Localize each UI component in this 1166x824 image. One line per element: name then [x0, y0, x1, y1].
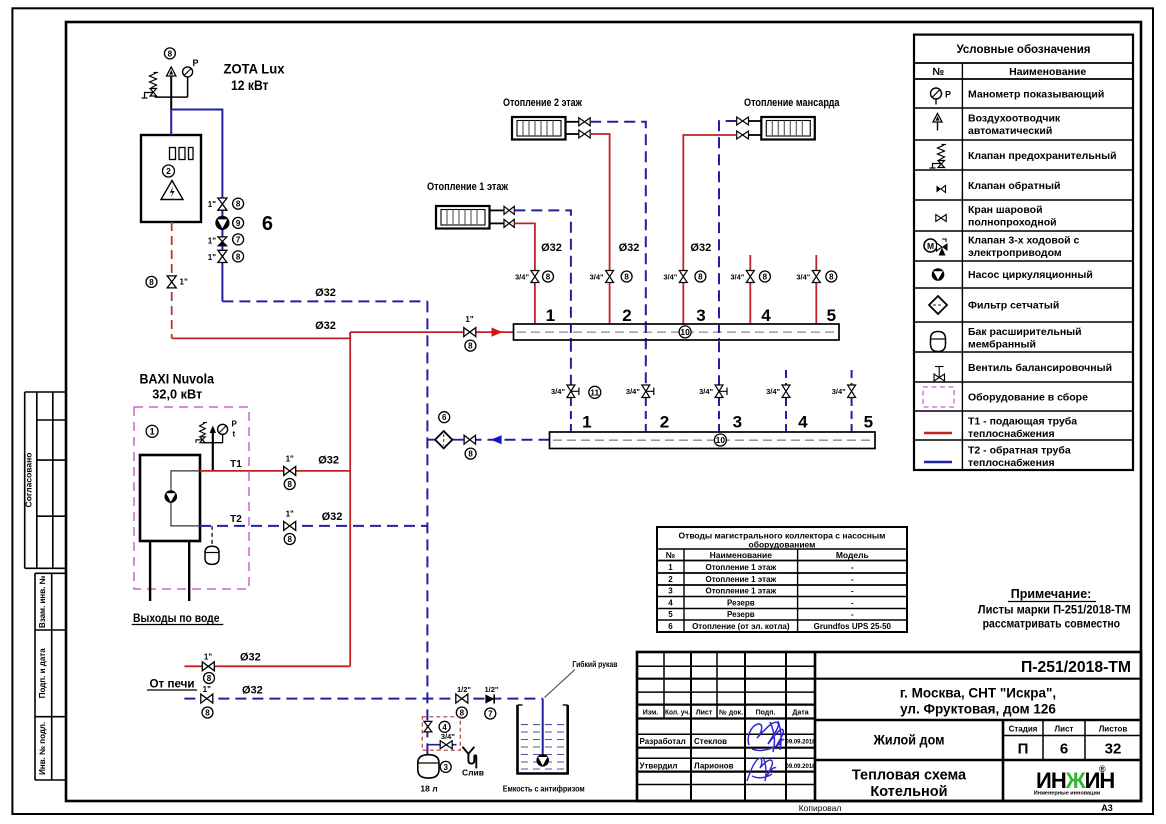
ball valve 3/4" (drain): [440, 741, 452, 749]
svg-text:6: 6: [1060, 741, 1068, 758]
svg-text:Ø32: Ø32: [315, 320, 336, 332]
svg-text:2: 2: [166, 166, 171, 176]
svg-text:4: 4: [668, 598, 673, 607]
svg-text:1: 1: [150, 427, 155, 437]
label BAXI Nuvola 32,0 кВт: [140, 371, 215, 402]
svg-text:10: 10: [716, 435, 726, 445]
ball valve (rad3 supply): [737, 131, 749, 139]
logo ИНЖИН: [1034, 764, 1115, 797]
svg-text:8: 8: [829, 273, 834, 282]
svg-text:электроприводом: электроприводом: [968, 247, 1062, 259]
wire: ZOTA return dashed blue to riser: [222, 300, 427, 302]
wire: boiler top to safety tee (black): [170, 76, 172, 110]
svg-text:9: 9: [236, 219, 241, 228]
boiler vents: [170, 148, 194, 160]
svg-text:3/4": 3/4": [699, 387, 713, 396]
svg-text:Изм.: Изм.: [643, 710, 659, 717]
svg-text:Отопление мансарда: Отопление мансарда: [744, 97, 840, 109]
legend sym: T2 line: [924, 461, 952, 463]
ball valve 1" (pump column top): [218, 198, 227, 210]
svg-text:4: 4: [761, 306, 771, 325]
check valve 1": [218, 237, 227, 246]
svg-text:Ø32: Ø32: [315, 287, 336, 299]
ball valve 1" on T1: [284, 466, 296, 475]
svg-text:Фильтр сетчатый: Фильтр сетчатый: [968, 300, 1059, 312]
signature 1 (blue): [748, 721, 784, 752]
ball valve 1/2" (fill line): [456, 694, 468, 703]
pos. 8 (circled): [146, 276, 157, 287]
svg-text:М: М: [927, 241, 934, 251]
values П 6 32: [1018, 741, 1122, 758]
balancing valve 3/4" (return br1): [567, 385, 579, 398]
svg-text:1": 1": [286, 510, 294, 519]
pos. 9 (circled): [233, 217, 244, 228]
check valve 1/2" (fill line): [485, 694, 494, 703]
svg-text:8: 8: [460, 709, 465, 718]
wire: supply branch 5 stub: [815, 255, 817, 271]
svg-text:Ø32: Ø32: [240, 652, 261, 664]
wire: rad1 supply red: [514, 223, 535, 270]
svg-text:3: 3: [443, 763, 448, 772]
drain assembly dashed box (dark red): [422, 717, 460, 750]
svg-text:Наименование: Наименование: [1009, 66, 1086, 78]
safety relief valve (BAXI): [196, 423, 207, 443]
svg-text:Взам. инв. №: Взам. инв. №: [38, 575, 47, 628]
drain funnel (Слив): [462, 747, 476, 769]
svg-text:8: 8: [205, 709, 210, 718]
svg-text:Насос циркуляционный: Насос циркуляционный: [968, 269, 1093, 281]
svg-text:1": 1": [208, 237, 216, 246]
ball valve 3/4" (return br4): [782, 385, 790, 398]
BAXI safety tee: [202, 442, 223, 444]
svg-text:1/2": 1/2": [485, 685, 499, 694]
svg-text:Т1 - подающая труба: Т1 - подающая труба: [968, 416, 1077, 428]
pressure gauge P t (BAXI): [218, 420, 238, 443]
wire: rad3 return dashed blue: [719, 121, 737, 385]
svg-text:Емкость с антифризом: Емкость с антифризом: [503, 784, 585, 794]
labels Стадия Лист Листов: [1009, 725, 1128, 734]
safety relief valve (ZOTA): [142, 73, 159, 99]
svg-text:8: 8: [698, 273, 703, 282]
pressure gauge P (ZOTA): [183, 58, 199, 97]
svg-text:От печи: От печи: [150, 677, 195, 691]
svg-text:3/4": 3/4": [515, 273, 529, 282]
svg-text:г. Москва, СНТ "Искра",: г. Москва, СНТ "Искра",: [900, 686, 1056, 701]
wire: T1 red from boiler: [200, 470, 350, 472]
legend sym: ball valve: [936, 215, 946, 222]
svg-text:T1: T1: [230, 459, 242, 470]
svg-text:7: 7: [488, 710, 493, 719]
svg-text:Котельной: Котельной: [870, 784, 947, 800]
pos. 3 (circled): [440, 761, 451, 772]
ball valve (rad2 supply): [579, 130, 590, 138]
pos. 1 (circled): [146, 425, 158, 437]
svg-text:32: 32: [1105, 741, 1122, 758]
pump (in tank): [536, 754, 549, 767]
tank top ticks: [518, 704, 568, 706]
svg-text:мембранный: мембранный: [968, 339, 1036, 351]
svg-text:12 кВт: 12 кВт: [231, 77, 269, 93]
svg-text:Инв. № подл.: Инв. № подл.: [38, 722, 47, 775]
svg-text:1": 1": [203, 685, 211, 694]
svg-text:1": 1": [286, 455, 294, 464]
legend sym: T1 line: [924, 432, 952, 434]
svg-text:Тепловая схема: Тепловая схема: [852, 768, 967, 784]
labels 3/4" (supply valves): [515, 273, 811, 282]
svg-text:1": 1": [465, 315, 473, 324]
svg-text:8: 8: [468, 450, 473, 459]
svg-text:6: 6: [442, 413, 447, 422]
air vent (BAXI): [210, 426, 216, 434]
svg-text:ул. Фруктовая, дом 126: ул. Фруктовая, дом 126: [900, 702, 1056, 717]
svg-text:Лист: Лист: [1055, 725, 1074, 734]
supply manifold centerline: [517, 331, 836, 333]
svg-text:8: 8: [763, 273, 768, 282]
svg-text:П: П: [1018, 741, 1029, 758]
svg-text:6: 6: [668, 622, 673, 631]
wire: blue dashed to furnace: [184, 698, 542, 700]
wire: rad2 supply red: [590, 134, 609, 271]
table rows: [668, 563, 891, 631]
boiler internal circuit: [171, 471, 200, 526]
svg-text:полнопроходной: полнопроходной: [968, 217, 1057, 229]
radiator (1 этаж): [436, 206, 490, 229]
svg-text:1": 1": [204, 653, 212, 662]
svg-text:Копировал: Копировал: [799, 803, 842, 813]
expansion tank 18 l: [418, 755, 439, 778]
ball valve 3/4" (return br5): [848, 385, 856, 398]
pos. 2 (circled): [163, 165, 175, 177]
ball valves 3/4" on supply branches: [531, 271, 820, 283]
radiator 1 stubs: [490, 210, 505, 223]
svg-text:Ø32: Ø32: [318, 455, 339, 467]
wire: blue branch to pump column: [171, 110, 222, 302]
svg-text:Листов: Листов: [1099, 725, 1128, 734]
wire: blue return riser: [426, 301, 428, 754]
table header: [666, 550, 869, 560]
ball valve 1" on ZOTA red: [167, 276, 176, 288]
labels 1-5 (return inlets): [582, 413, 873, 432]
svg-text:Ø32: Ø32: [690, 242, 711, 254]
wire: ZOTA supply dashed red down: [171, 222, 173, 338]
ball valve on return: [464, 435, 475, 444]
svg-text:Кол. уч.: Кол. уч.: [665, 710, 690, 717]
pos. 8 (circled): [204, 673, 215, 684]
return manifold centerline: [553, 439, 872, 441]
wire: tee to boiler top (blue): [170, 110, 172, 136]
svg-text:Клапан обратный: Клапан обратный: [968, 180, 1060, 192]
svg-text:Слив: Слив: [462, 768, 484, 778]
ball valve (rad1 supply): [504, 219, 514, 227]
legend sym: pump: [932, 268, 945, 281]
svg-text:Ø32: Ø32: [541, 242, 562, 254]
radiator 2 stubs: [566, 122, 579, 134]
svg-text:Лист: Лист: [696, 710, 713, 717]
pos. 8 (circled): [202, 707, 213, 718]
ball valve 1" on supply: [464, 328, 476, 337]
radiator 3 stubs: [749, 121, 762, 135]
svg-text:3: 3: [696, 306, 705, 325]
expansion tank (BAXI): [205, 546, 219, 564]
pos. 8 (circled) above air vent: [164, 48, 175, 59]
svg-text:1": 1": [208, 253, 216, 262]
svg-text:4: 4: [442, 723, 447, 732]
svg-text:5: 5: [827, 306, 836, 325]
return manifold body: [550, 432, 876, 449]
pos. 8 circles (supply valves): [543, 271, 837, 282]
svg-text:Кран шаровой: Кран шаровой: [968, 204, 1043, 216]
wire: red riser (T1 trunk): [349, 332, 351, 666]
svg-text:8: 8: [287, 535, 292, 544]
svg-text:Гибкий рукав: Гибкий рукав: [572, 660, 617, 669]
pump P1 (circulation, ZOTA loop): [216, 216, 229, 229]
wires: return branches below valves: [571, 398, 852, 432]
svg-text:1: 1: [582, 413, 591, 432]
svg-text:Стадия: Стадия: [1009, 725, 1038, 734]
svg-text:Ларионов: Ларионов: [694, 762, 734, 771]
pos. 7 (circled): [233, 234, 244, 245]
ball valve 1" on T2: [284, 521, 296, 530]
safety group header line: [155, 96, 188, 98]
svg-text:Подп.: Подп.: [756, 710, 776, 717]
svg-text:18 л: 18 л: [420, 784, 437, 794]
svg-text:5: 5: [864, 413, 873, 432]
svg-text:теплоснабжения: теплоснабжения: [968, 428, 1055, 440]
radiator (2 этаж): [512, 117, 566, 140]
wire: ZOTA red horizontal: [172, 332, 351, 338]
svg-text:1": 1": [208, 200, 216, 209]
BAXI safety group stem: [212, 433, 214, 471]
flow arrow into supply manifold: [492, 328, 503, 337]
svg-text:Манометр показывающий: Манометр показывающий: [968, 89, 1104, 101]
pos. 10 (circled, supply manifold): [679, 326, 691, 338]
svg-text:рассматривать совместно: рассматривать совместно: [983, 619, 1121, 631]
svg-text:Инженерные инновации: Инженерные инновации: [1034, 791, 1100, 797]
balancing valve 3/4" (return br3): [715, 385, 727, 398]
antifreeze liquid (dashed): [521, 725, 565, 769]
svg-text:t: t: [233, 430, 236, 439]
svg-text:2: 2: [622, 306, 631, 325]
wire: return branch 4 stub: [785, 370, 787, 385]
svg-text:1: 1: [668, 563, 673, 572]
legend sym: check valve: [937, 186, 946, 193]
legend sym: strainer: [929, 296, 947, 314]
svg-text:Т2 - обратная труба: Т2 - обратная труба: [968, 445, 1071, 457]
svg-text:®: ®: [1099, 764, 1106, 774]
svg-text:6: 6: [262, 213, 273, 235]
svg-text:3/4": 3/4": [730, 273, 744, 282]
svg-text:BAXI Nuvola: BAXI Nuvola: [140, 371, 215, 387]
ball valve (rad2 return): [579, 118, 590, 126]
svg-text:-: -: [851, 598, 854, 607]
svg-text:P: P: [193, 58, 199, 68]
svg-text:P: P: [232, 420, 238, 429]
svg-text:Жилой дом: Жилой дом: [873, 732, 945, 748]
svg-text:8: 8: [236, 200, 241, 209]
svg-text:Ø32: Ø32: [242, 685, 263, 697]
boiler K2 (ZOTA) body: [141, 135, 201, 222]
svg-text:Оборудование в сборе: Оборудование в сборе: [968, 392, 1088, 404]
svg-text:Воздухоотводчик: Воздухоотводчик: [968, 113, 1061, 125]
legend sym: 3-way valve with actuator: [924, 239, 948, 256]
svg-text:09.09.2018: 09.09.2018: [785, 764, 816, 770]
label ZOTA Lux 12 кВт: [224, 61, 285, 94]
svg-text:Условные обозначения: Условные обозначения: [956, 44, 1090, 56]
balancing valve 3/4" (return br2): [642, 385, 654, 398]
svg-text:автоматический: автоматический: [968, 125, 1052, 137]
legend sym: air vent: [933, 114, 942, 131]
wire: filter connector: [427, 439, 464, 441]
pos. 8 (circled): [284, 479, 295, 490]
ball valve (drain riser): [424, 721, 432, 732]
svg-text:Отопление 1 этаж: Отопление 1 этаж: [427, 181, 508, 193]
svg-text:3/4": 3/4": [590, 273, 604, 282]
ball valve 1" (pump column bottom): [218, 250, 227, 262]
svg-text:11: 11: [590, 387, 599, 397]
labels Ø32 on branches: [541, 242, 711, 254]
pos. 8 (circled): [456, 707, 467, 718]
svg-text:Резерв: Резерв: [727, 610, 755, 619]
svg-text:Отопление 1 этаж: Отопление 1 этаж: [705, 587, 776, 596]
svg-text:оборудованием: оборудованием: [749, 540, 816, 550]
svg-text:8: 8: [468, 342, 473, 351]
svg-text:T2: T2: [230, 514, 242, 525]
svg-text:Ø32: Ø32: [619, 242, 640, 254]
pos. 4 (circled): [439, 721, 450, 732]
pos. 7 (circled): [485, 708, 496, 719]
svg-text:-: -: [851, 563, 854, 572]
wire: T2 dashed blue from boiler: [200, 525, 427, 527]
svg-text:Стеклов: Стеклов: [694, 737, 727, 746]
svg-text:№: №: [932, 66, 944, 78]
wire: red from furnace: [184, 665, 350, 667]
svg-text:№ док.: № док.: [719, 709, 743, 717]
svg-text:-: -: [851, 587, 854, 596]
pos. 8 (circled): [465, 448, 476, 459]
svg-text:ZOTA Lux: ZOTA Lux: [224, 61, 285, 77]
svg-text:8: 8: [168, 49, 173, 58]
svg-text:-: -: [851, 610, 854, 619]
boiler bottom pipes: [150, 541, 189, 601]
svg-text:2: 2: [660, 413, 669, 432]
svg-text:А3: А3: [1101, 803, 1113, 813]
svg-text:Резерв: Резерв: [727, 598, 755, 607]
svg-text:8: 8: [236, 252, 241, 261]
wire: rad2 return dashed blue: [590, 122, 646, 385]
legend sym: expansion tank: [931, 332, 946, 352]
svg-text:7: 7: [236, 235, 241, 244]
svg-text:4: 4: [798, 413, 808, 432]
svg-text:09.09.2018: 09.09.2018: [785, 740, 816, 746]
equipment assembly dashed box (magenta): [134, 407, 249, 589]
svg-text:2: 2: [668, 575, 673, 584]
ball valve (rad3 return): [737, 117, 749, 125]
svg-text:3: 3: [668, 587, 673, 596]
svg-text:32,0 кВт: 32,0 кВт: [152, 387, 202, 402]
wire: return branch 5 stub: [851, 370, 853, 385]
svg-text:3/4": 3/4": [766, 387, 780, 396]
svg-text:10: 10: [680, 327, 690, 337]
svg-text:8: 8: [546, 273, 551, 282]
svg-text:3/4": 3/4": [551, 387, 565, 396]
svg-text:Отопление 1 этаж: Отопление 1 этаж: [705, 563, 776, 572]
legend frame: [914, 35, 1133, 470]
svg-text:Клапан предохранительный: Клапан предохранительный: [968, 150, 1117, 162]
svg-text:Grundfos UPS 25-50: Grundfos UPS 25-50: [814, 622, 892, 631]
wire: supply branch 4 stub: [749, 255, 751, 271]
labels 1-5 (supply outlets): [546, 306, 836, 325]
svg-text:1/2": 1/2": [457, 685, 471, 694]
svg-text:1: 1: [546, 306, 555, 325]
wire: hose down into tank: [542, 699, 544, 755]
svg-text:Модель: Модель: [836, 550, 869, 560]
electric hazard triangle: [161, 181, 183, 200]
expansion tank stem (dashed): [211, 526, 213, 546]
wire: rad3 supply red: [683, 135, 736, 271]
air vent (ZOTA): [167, 67, 176, 76]
supply manifold body: [514, 324, 840, 340]
legend sym: safety valve: [930, 145, 947, 169]
svg-text:Подп. и дата: Подп. и дата: [38, 648, 47, 698]
labels 3/4" (return valves): [551, 387, 846, 396]
pump (BAXI internal): [165, 490, 178, 503]
strainer filter: [435, 431, 452, 448]
svg-text:8: 8: [149, 278, 154, 287]
svg-text:теплоснабжения: теплоснабжения: [968, 457, 1055, 469]
svg-text:Вентиль балансировочный: Вентиль балансировочный: [968, 362, 1112, 374]
svg-text:3: 3: [733, 413, 742, 432]
svg-text:П-251/2018-ТМ: П-251/2018-ТМ: [1021, 659, 1131, 676]
ball valve 1" (furnace blue): [201, 694, 213, 703]
wires: supply branches below valves: [535, 283, 816, 325]
left margin approvals block (Согласовано): [25, 392, 66, 568]
pos. 10 (circled, return manifold): [714, 434, 726, 446]
pos. 11 (circled): [589, 386, 601, 398]
svg-text:8: 8: [287, 480, 292, 489]
wire: rad1 return dashed blue: [514, 210, 571, 385]
svg-text:Выходы по воде: Выходы по воде: [133, 611, 220, 625]
svg-text:Дата: Дата: [792, 710, 808, 717]
ball valve 1" (furnace red): [202, 662, 214, 671]
pos. 8 (circled): [284, 534, 295, 545]
antifreeze tank walls: [518, 705, 568, 774]
ball valve (rad1 return): [504, 206, 514, 214]
svg-text:5: 5: [668, 610, 673, 619]
pos. 8 (circled): [233, 198, 244, 209]
svg-text:8: 8: [624, 273, 629, 282]
flow arrow (return, pointing left): [491, 435, 502, 444]
pos. 8 (circled): [233, 251, 244, 262]
wires: return risers crossing supply manifold: [571, 325, 719, 339]
svg-text:Примечание:: Примечание:: [1011, 586, 1092, 601]
wire: main red supply to manifold: [350, 331, 513, 333]
svg-text:3/4": 3/4": [626, 387, 640, 396]
svg-text:Клапан 3-х ходовой с: Клапан 3-х ходовой с: [968, 235, 1079, 247]
svg-text:1": 1": [180, 278, 188, 287]
svg-text:Согласовано: Согласовано: [24, 453, 34, 508]
svg-text:3/4": 3/4": [663, 273, 677, 282]
svg-text:№: №: [666, 550, 676, 560]
svg-text:Утвердил: Утвердил: [640, 762, 678, 771]
signature 2 (blue): [747, 757, 776, 781]
boiler K1 (BAXI) body: [140, 455, 200, 541]
svg-text:8: 8: [207, 674, 212, 683]
pos. 6 (circled) above filter: [439, 412, 450, 423]
header labels: [643, 709, 809, 717]
svg-text:3/4": 3/4": [832, 387, 846, 396]
svg-text:Ø32: Ø32: [322, 511, 343, 523]
svg-text:Разработал: Разработал: [640, 737, 686, 746]
